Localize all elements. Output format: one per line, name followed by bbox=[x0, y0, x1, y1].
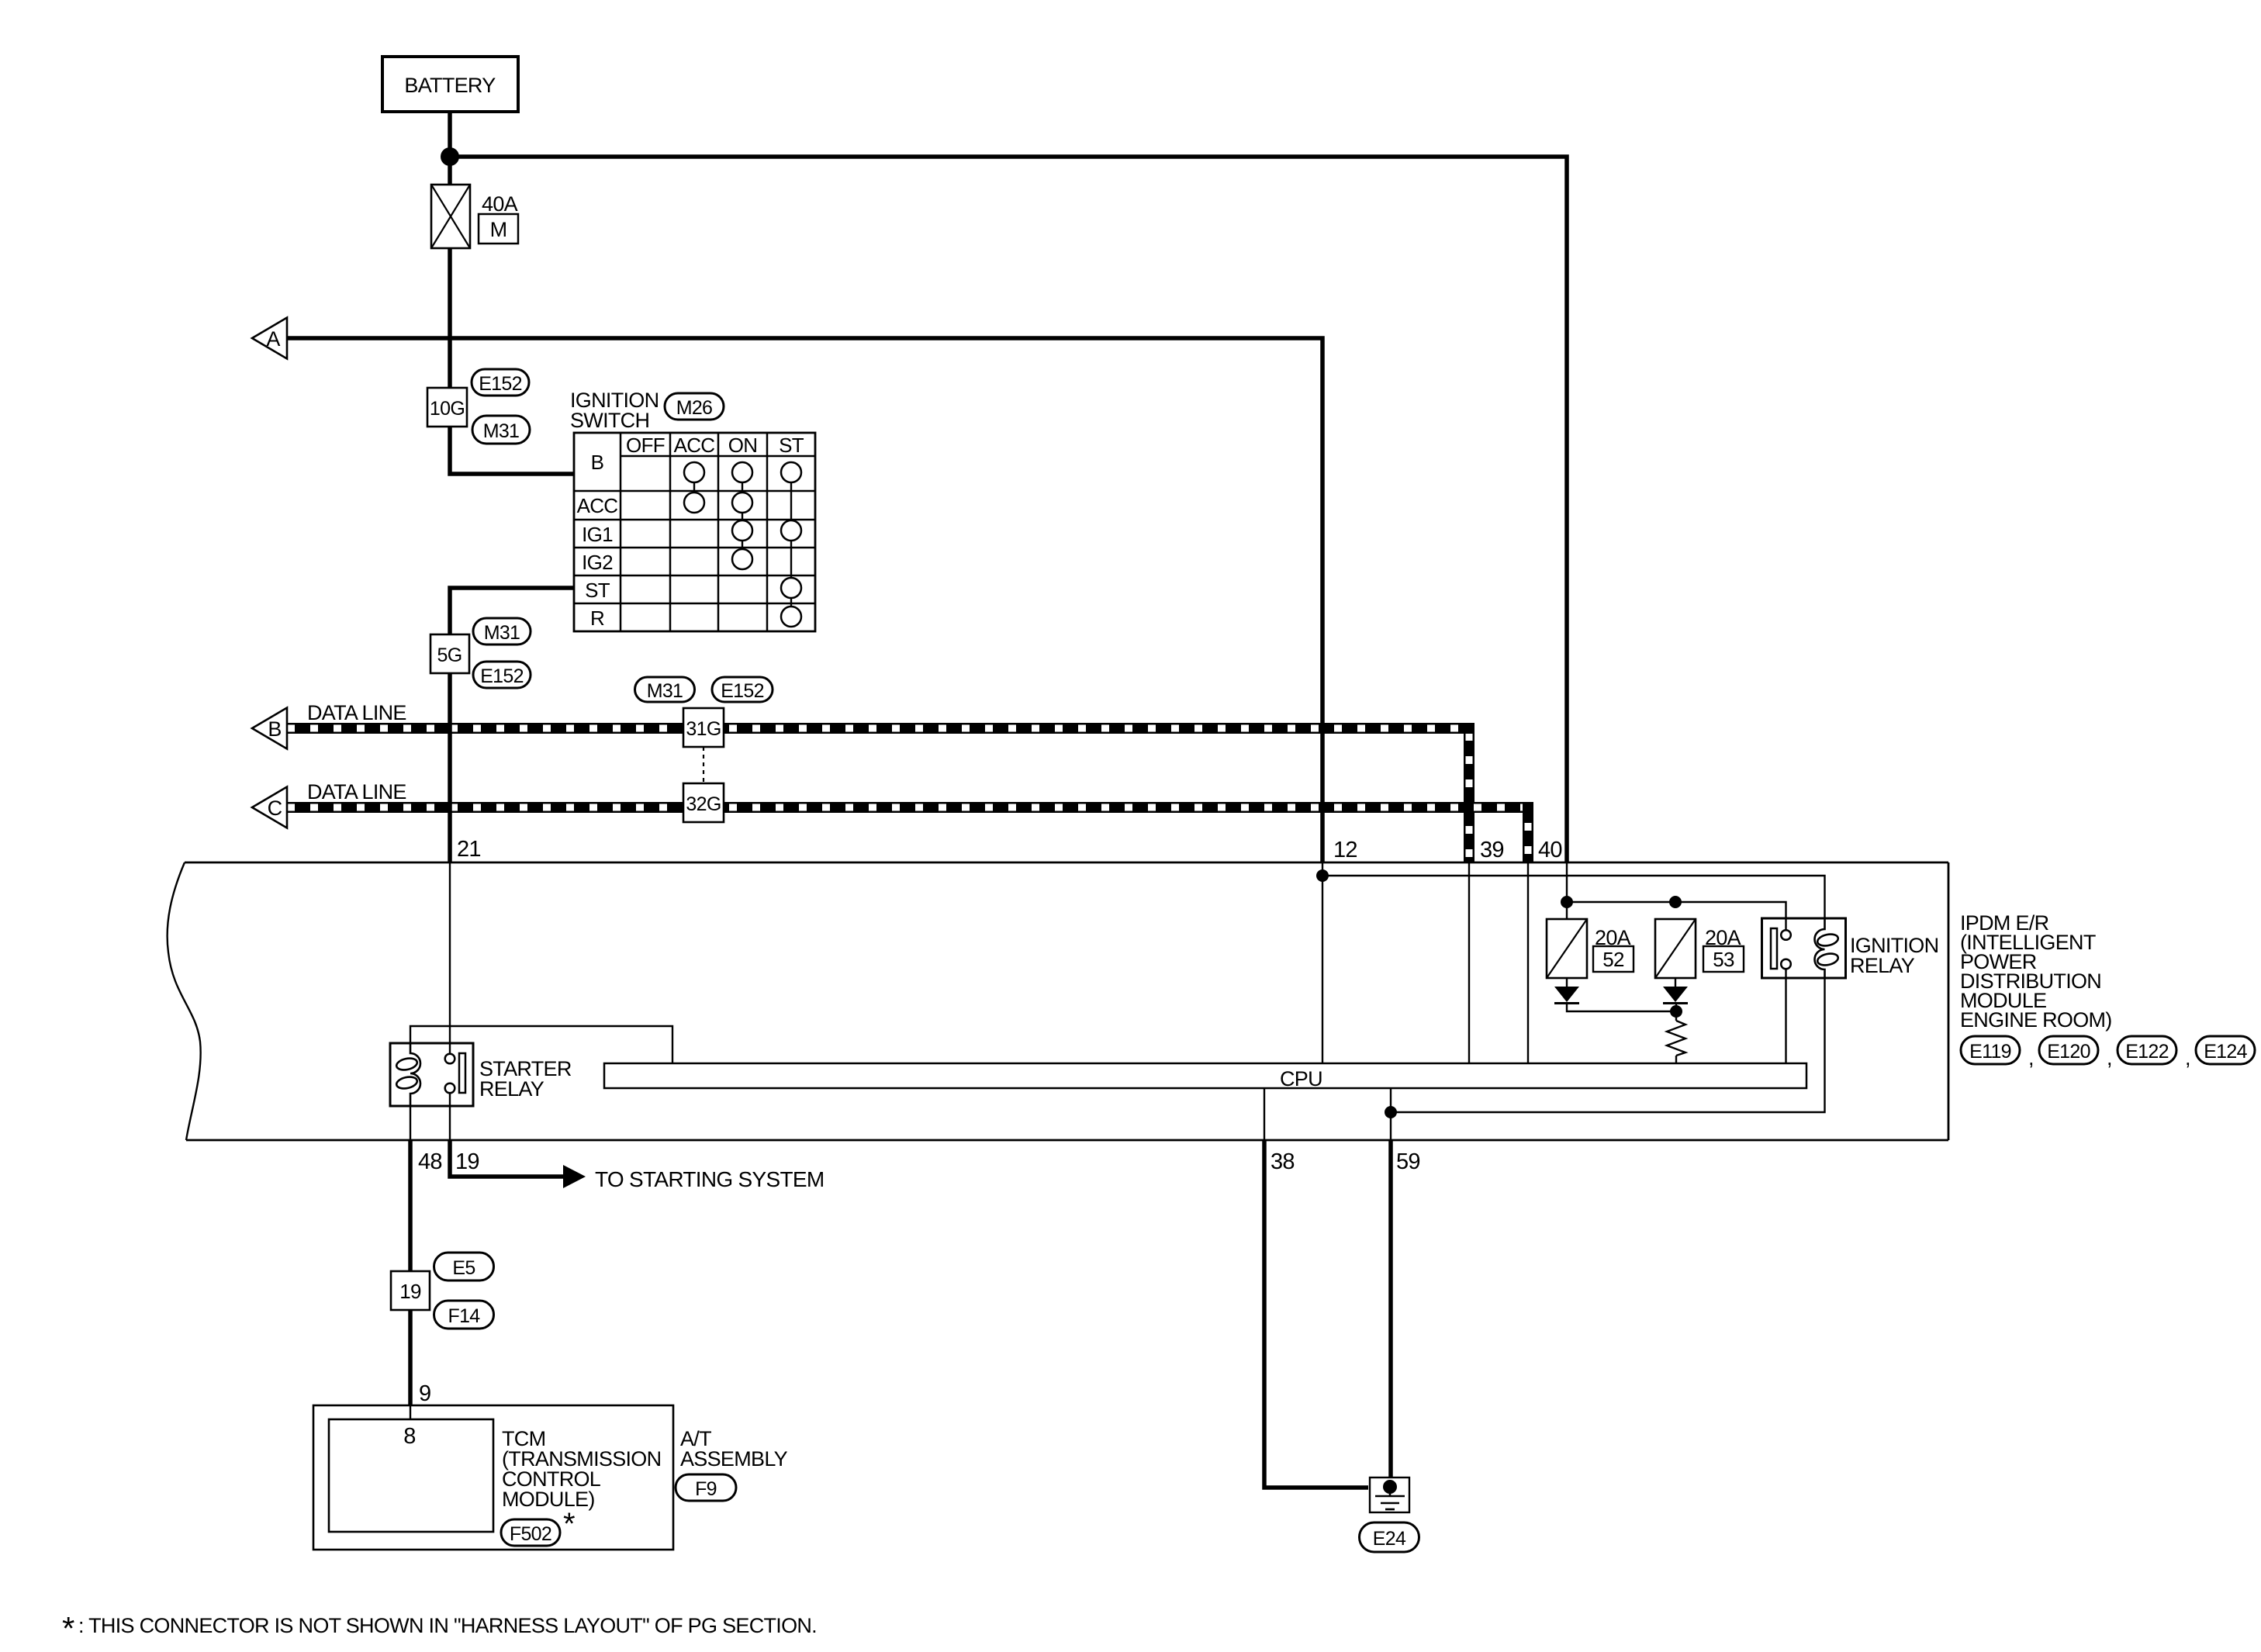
svg-text:ENGINE ROOM): ENGINE ROOM) bbox=[1960, 1008, 2112, 1032]
svg-text:RELAY: RELAY bbox=[1850, 954, 1915, 977]
svg-text:DATA LINE: DATA LINE bbox=[307, 701, 406, 724]
svg-text:F9: F9 bbox=[695, 1478, 717, 1500]
svg-text:M: M bbox=[490, 218, 507, 241]
svg-text:IG2: IG2 bbox=[582, 551, 613, 574]
svg-text:E5: E5 bbox=[452, 1257, 475, 1279]
svg-text:21: 21 bbox=[457, 837, 481, 862]
svg-text:48: 48 bbox=[418, 1149, 442, 1174]
svg-text:53: 53 bbox=[1713, 948, 1734, 971]
svg-text:ON: ON bbox=[728, 434, 758, 457]
svg-text:C: C bbox=[268, 797, 282, 820]
svg-text:52: 52 bbox=[1602, 948, 1624, 971]
svg-text:CPU: CPU bbox=[1280, 1067, 1322, 1090]
svg-text:: THIS CONNECTOR IS NOT SHOWN: : THIS CONNECTOR IS NOT SHOWN IN "HARNES… bbox=[78, 1614, 817, 1637]
svg-text:A: A bbox=[266, 327, 280, 351]
svg-text:19: 19 bbox=[399, 1280, 421, 1303]
svg-text:E152: E152 bbox=[479, 373, 522, 395]
svg-text:SWITCH: SWITCH bbox=[570, 409, 649, 432]
svg-text:,: , bbox=[2185, 1046, 2190, 1070]
svg-text:12: 12 bbox=[1333, 838, 1357, 862]
svg-text:DATA LINE: DATA LINE bbox=[307, 780, 406, 804]
svg-text:MODULE): MODULE) bbox=[502, 1488, 595, 1511]
svg-text:,: , bbox=[2028, 1046, 2034, 1070]
svg-text:39: 39 bbox=[1480, 838, 1504, 862]
svg-text:M31: M31 bbox=[647, 680, 683, 702]
svg-text:E124: E124 bbox=[2204, 1041, 2247, 1063]
svg-text:E152: E152 bbox=[721, 680, 764, 702]
svg-text:31G: 31G bbox=[686, 718, 721, 740]
svg-text:20A: 20A bbox=[1705, 926, 1741, 949]
svg-text:*: * bbox=[563, 1507, 575, 1541]
svg-text:ASSEMBLY: ASSEMBLY bbox=[680, 1447, 788, 1471]
svg-text:ST: ST bbox=[585, 579, 610, 602]
svg-text:E24: E24 bbox=[1373, 1528, 1406, 1550]
svg-text:TO STARTING SYSTEM: TO STARTING SYSTEM bbox=[595, 1167, 824, 1191]
svg-text:10G: 10G bbox=[430, 398, 465, 420]
svg-text:,: , bbox=[2107, 1046, 2112, 1070]
svg-text:ACC: ACC bbox=[577, 494, 618, 517]
svg-text:BATTERY: BATTERY bbox=[404, 74, 496, 97]
svg-text:59: 59 bbox=[1396, 1149, 1420, 1174]
svg-text:R: R bbox=[590, 607, 604, 630]
svg-text:IG1: IG1 bbox=[582, 523, 613, 546]
svg-text:E119: E119 bbox=[1969, 1041, 2011, 1063]
svg-text:F14: F14 bbox=[448, 1305, 481, 1327]
svg-text:E120: E120 bbox=[2047, 1041, 2090, 1063]
svg-text:E122: E122 bbox=[2125, 1041, 2169, 1063]
svg-text:B: B bbox=[268, 717, 281, 741]
svg-text:9: 9 bbox=[419, 1381, 430, 1406]
svg-text:19: 19 bbox=[455, 1149, 479, 1174]
svg-text:OFF: OFF bbox=[626, 434, 665, 457]
svg-text:RELAY: RELAY bbox=[479, 1077, 545, 1101]
svg-text:20A: 20A bbox=[1595, 926, 1631, 949]
svg-text:40A: 40A bbox=[482, 192, 518, 216]
svg-text:38: 38 bbox=[1271, 1149, 1295, 1174]
svg-text:40: 40 bbox=[1538, 838, 1562, 862]
svg-text:M31: M31 bbox=[484, 622, 520, 644]
svg-text:32G: 32G bbox=[686, 793, 721, 815]
svg-text:*: * bbox=[62, 1610, 74, 1647]
svg-text:M31: M31 bbox=[483, 420, 520, 442]
svg-text:8: 8 bbox=[403, 1424, 415, 1449]
svg-text:F502: F502 bbox=[510, 1523, 551, 1545]
svg-text:M26: M26 bbox=[676, 397, 713, 419]
svg-text:ACC: ACC bbox=[674, 434, 715, 457]
svg-text:B: B bbox=[591, 451, 604, 474]
svg-text:E152: E152 bbox=[480, 665, 524, 687]
svg-text:5G: 5G bbox=[437, 645, 462, 666]
svg-text:ST: ST bbox=[779, 434, 804, 457]
